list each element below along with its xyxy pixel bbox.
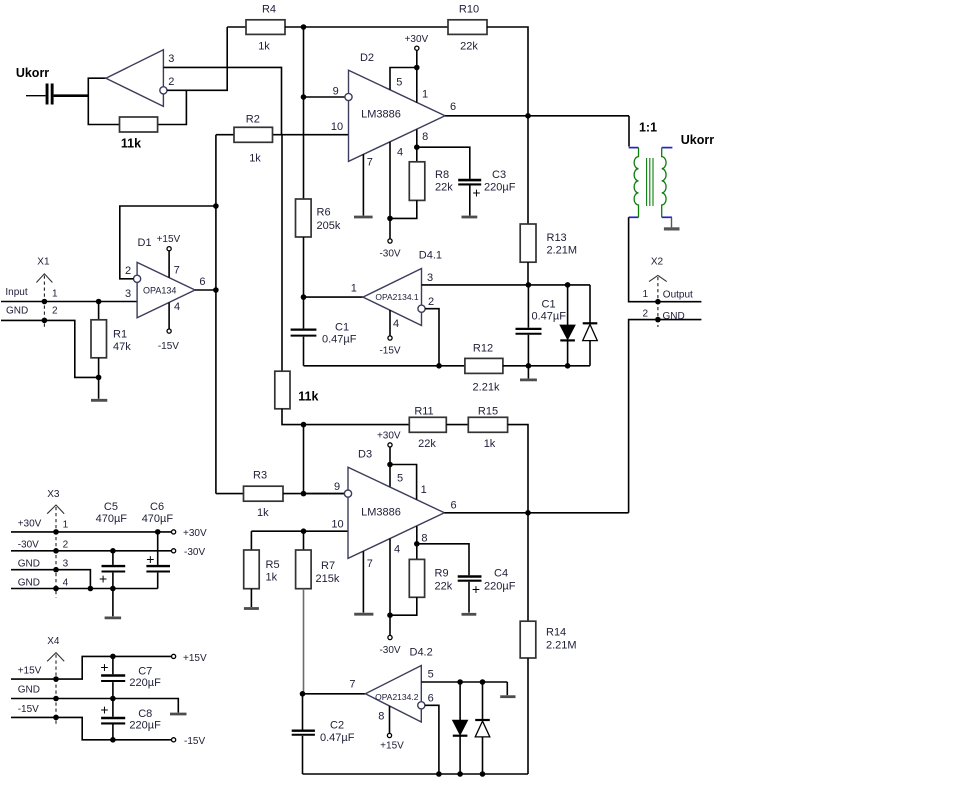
svg-text:4: 4: [63, 578, 69, 589]
resistor R1 47k: [98, 302, 100, 320]
pin 9 bubble: [344, 490, 351, 497]
resistor R12 2.21k: [465, 358, 503, 373]
resistor R5 1k: [250, 531, 252, 550]
wire pin8 to C3: [417, 147, 470, 179]
svg-text:GND: GND: [6, 306, 28, 317]
svg-text:22k: 22k: [435, 182, 453, 194]
svg-text:GND: GND: [18, 578, 40, 589]
terminal -30V (D2): [388, 239, 392, 243]
svg-text:0.47µF: 0.47µF: [320, 732, 355, 744]
connector X3: [18, 489, 69, 598]
svg-text:R10: R10: [459, 4, 479, 16]
svg-text:0.47µF: 0.47µF: [322, 334, 357, 346]
pin 4 stub: [389, 310, 391, 336]
pin 6 bubble: [418, 702, 425, 709]
svg-text:4: 4: [393, 318, 399, 330]
svg-text:1k: 1k: [266, 572, 278, 584]
svg-text:C4: C4: [494, 568, 508, 580]
resistor R6: [296, 199, 312, 237]
svg-text:C3: C3: [492, 169, 506, 181]
resistor R7 215k: [303, 531, 305, 550]
svg-text:6: 6: [451, 500, 457, 512]
svg-text:OPA2134.2: OPA2134.2: [375, 692, 419, 702]
pin 8 stub: [389, 706, 391, 734]
svg-text:R6: R6: [317, 207, 331, 219]
capacitor C8 220uF: [100, 699, 161, 740]
svg-text:+30V: +30V: [405, 34, 429, 45]
capacitor C6 470uF: [142, 501, 174, 588]
svg-text:+30V: +30V: [18, 518, 42, 529]
wire pin8 to C4: [417, 544, 469, 576]
svg-text:D4.1: D4.1: [419, 250, 442, 262]
wire output to transformer: [628, 116, 630, 147]
pin 9 bubble: [345, 93, 352, 100]
wire pin 10 from R2: [273, 134, 349, 136]
wire pin 9: [304, 493, 345, 495]
svg-text:2: 2: [125, 265, 131, 277]
wire output of buffer to feedback: [88, 78, 119, 124]
ground (D3 pin7): [354, 613, 373, 616]
wire C3 to ground: [469, 186, 471, 216]
resistor R10: [448, 20, 487, 35]
pin 3 wire: [422, 284, 591, 286]
pin 2 inverting bubble: [160, 87, 167, 94]
terminal -30V (D3): [388, 635, 392, 639]
svg-text:C1: C1: [335, 321, 349, 333]
svg-text:C7: C7: [138, 665, 152, 677]
wire output node down to R13: [527, 116, 529, 224]
svg-text:8: 8: [421, 533, 427, 545]
terminal +15V (D1): [168, 251, 170, 278]
svg-text:2: 2: [52, 306, 58, 317]
svg-text:220µF: 220µF: [129, 720, 161, 732]
ground (R5): [244, 607, 259, 610]
svg-text:4: 4: [397, 147, 403, 159]
junction R4/R10: [301, 24, 307, 30]
svg-text:1:1: 1:1: [639, 121, 657, 135]
transformer 1:1: [629, 121, 673, 218]
svg-text:-30V: -30V: [18, 540, 39, 551]
svg-text:205k: 205k: [317, 220, 341, 232]
wire output pin 6: [444, 512, 628, 514]
svg-text:0.47µF: 0.47µF: [532, 311, 567, 323]
svg-text:470µF: 470µF: [96, 513, 128, 525]
wire X1 pin2 gnd: [1, 320, 99, 377]
ground (X3): [112, 589, 114, 617]
svg-text:X4: X4: [47, 636, 60, 647]
resistor 11k (buffer feedback): [120, 117, 158, 132]
svg-text:D3: D3: [358, 449, 372, 461]
svg-text:6: 6: [199, 276, 205, 288]
ground (X4): [170, 713, 187, 716]
wire X3 pin2 -30V: [11, 550, 172, 552]
svg-text:220µF: 220µF: [484, 581, 516, 593]
resistor R8: [409, 162, 425, 201]
svg-text:-15V: -15V: [379, 345, 400, 356]
svg-text:-30V: -30V: [379, 248, 400, 259]
terminal -15V (D4.1): [388, 336, 392, 340]
svg-text:11k: 11k: [298, 390, 318, 404]
svg-text:7: 7: [367, 558, 373, 570]
svg-text:X1: X1: [37, 257, 50, 268]
svg-text:R14: R14: [546, 627, 566, 639]
capacitor (Ukorr coupling): [26, 84, 88, 105]
svg-text:C2: C2: [330, 719, 344, 731]
svg-text:1: 1: [351, 283, 357, 295]
ground (R12 node): [527, 366, 529, 379]
wire R4 left: [227, 26, 246, 28]
svg-text:-15V: -15V: [184, 736, 205, 747]
wire R13 bottom: [527, 262, 529, 285]
svg-text:R8: R8: [435, 169, 449, 181]
terminal +15V (X4): [172, 654, 176, 658]
resistor 11k (D3 feedback tap): [281, 135, 283, 372]
svg-text:22k: 22k: [435, 580, 453, 592]
capacitor C3 220uF: [458, 169, 515, 201]
ground (C4): [462, 613, 477, 616]
wire servo bottom line: [304, 365, 465, 367]
pin 8 stub: [416, 526, 418, 559]
op-amp D4.1 OPA2134.1: [363, 269, 422, 326]
pin 8 stub: [416, 129, 418, 161]
svg-text:1k: 1k: [257, 507, 269, 519]
svg-text:C8: C8: [138, 708, 152, 720]
svg-text:R9: R9: [435, 568, 449, 580]
svg-text:9: 9: [334, 481, 340, 493]
svg-text:-30V: -30V: [184, 547, 205, 558]
svg-text:3: 3: [125, 288, 131, 300]
terminal -15V (X4): [172, 738, 176, 742]
svg-text:OPA2134.1: OPA2134.1: [375, 292, 419, 302]
wire X4 pin3 -15V: [11, 717, 172, 739]
capacitor C1 0.47uF (servo input): [291, 297, 357, 366]
svg-text:GND: GND: [663, 311, 685, 322]
wire R10 right down to output node: [487, 27, 528, 116]
connector X4: [18, 636, 64, 725]
ground (R1): [91, 399, 107, 402]
svg-text:47k: 47k: [113, 341, 131, 353]
svg-text:8: 8: [422, 131, 428, 143]
resistor R13: [520, 224, 536, 262]
svg-text:1: 1: [52, 288, 58, 299]
svg-text:+: +: [472, 185, 480, 201]
wire X1 pin1 to D1 pin3: [1, 301, 137, 303]
svg-text:+: +: [146, 551, 154, 567]
svg-text:-15V: -15V: [18, 704, 39, 715]
svg-text:2: 2: [643, 308, 649, 319]
wire X3 pin3 GND jog: [11, 570, 90, 589]
wire X2 pin2 down to D3 output: [629, 320, 702, 513]
terminal -30V (X3): [172, 549, 176, 553]
svg-text:LM3886: LM3886: [361, 109, 401, 121]
pin2 bubble D1: [134, 275, 141, 282]
svg-text:R3: R3: [253, 469, 267, 481]
wire pin 2 to R12: [425, 309, 439, 366]
svg-text:470µF: 470µF: [142, 513, 174, 525]
wire feedback drop: [158, 90, 187, 124]
svg-text:R12: R12: [473, 342, 493, 354]
wire R4/R10 tap down to pin9 node: [303, 27, 305, 199]
wire bottom rail: [303, 773, 529, 775]
wire output pin 6: [445, 115, 629, 117]
svg-text:+: +: [100, 659, 108, 675]
pin 5 stub: [390, 68, 417, 90]
svg-text:3: 3: [427, 272, 433, 284]
svg-text:2.21M: 2.21M: [546, 640, 577, 652]
capacitor C4 220uF: [458, 568, 516, 598]
connector X2: [643, 257, 694, 327]
svg-text:3: 3: [63, 559, 69, 570]
svg-text:1: 1: [63, 519, 69, 530]
pin 1 stub: [390, 465, 417, 500]
resistor R3 1k: [216, 493, 244, 495]
svg-text:R7: R7: [321, 560, 335, 572]
svg-text:4: 4: [394, 544, 400, 556]
terminal +30V (X3): [172, 530, 176, 534]
terminal -15V (D1): [168, 303, 170, 329]
wire R6 bottom to servo node: [303, 237, 305, 297]
svg-text:11k: 11k: [121, 137, 141, 151]
svg-text:2.21M: 2.21M: [547, 245, 578, 257]
terminal +30V (D3): [388, 443, 392, 447]
pin 5 stub: [389, 465, 391, 487]
resistor R14 2.21M: [527, 513, 529, 621]
svg-text:2: 2: [63, 540, 69, 551]
wire X3 pin1 +30V: [11, 531, 172, 533]
svg-text:1k: 1k: [249, 153, 261, 165]
svg-text:+15V: +15V: [18, 665, 42, 676]
svg-text:2: 2: [428, 296, 434, 308]
pin 2 bubble: [418, 305, 425, 312]
svg-text:D1: D1: [138, 237, 152, 249]
svg-text:5: 5: [396, 76, 402, 88]
svg-text:Ukorr: Ukorr: [16, 66, 49, 80]
svg-text:R2: R2: [246, 113, 260, 125]
wire D1 feedback: [120, 206, 216, 279]
svg-text:Output: Output: [663, 289, 693, 300]
svg-text:10: 10: [331, 121, 343, 133]
svg-text:C5: C5: [104, 501, 118, 513]
svg-text:8: 8: [378, 711, 384, 723]
ground (transformer): [664, 217, 680, 229]
capacitor C1 0.47uF (output RC): [516, 285, 567, 366]
wire X4 pin1 +15V: [11, 656, 172, 679]
wire X4 pin2 GND: [11, 699, 178, 713]
svg-text:+30V: +30V: [377, 431, 401, 442]
svg-text:R4: R4: [262, 4, 276, 16]
wire transformer to X2 pin1: [629, 217, 702, 301]
svg-text:GND: GND: [18, 684, 40, 695]
svg-text:220µF: 220µF: [129, 677, 161, 689]
ground (D4.2 pin5): [506, 682, 508, 695]
svg-text:+: +: [472, 581, 480, 597]
svg-text:+30V: +30V: [183, 528, 207, 539]
resistor R2: [216, 134, 234, 136]
wire main left bus (D1 out to R2/R3): [215, 135, 217, 494]
svg-text:D4.2: D4.2: [410, 646, 433, 658]
svg-text:2.21k: 2.21k: [473, 381, 500, 393]
wire X3 pin4 GND line: [11, 588, 158, 590]
wire R15 right down to D3 output: [508, 425, 528, 513]
pin 1 stub: [416, 68, 418, 103]
diode V2 (clamp, outline): [583, 285, 598, 366]
svg-text:R1: R1: [113, 329, 127, 341]
svg-text:LM3886: LM3886: [361, 507, 401, 519]
op-amp D2 LM3886: [349, 70, 446, 161]
svg-text:-30V: -30V: [379, 645, 400, 656]
svg-text:1: 1: [422, 89, 428, 101]
svg-text:10: 10: [331, 519, 343, 531]
svg-text:1: 1: [421, 484, 427, 496]
wire R8 bottom to -30V line: [390, 200, 417, 218]
svg-text:7: 7: [367, 157, 373, 169]
diode V3 (clamp, filled): [453, 682, 468, 774]
terminal +15V (D4.2): [387, 733, 391, 737]
pin 7 stub: [362, 154, 364, 215]
wire D1 output: [195, 289, 216, 291]
ground (D2 pin7): [354, 216, 373, 219]
svg-text:-15V: -15V: [158, 341, 179, 352]
wire D4.1 output line: [304, 296, 364, 298]
svg-text:220µF: 220µF: [484, 182, 516, 194]
resistor R11 22k: [409, 417, 446, 432]
capacitor C7 220uF: [100, 656, 161, 698]
svg-text:6: 6: [450, 101, 456, 113]
wire pin 9: [304, 96, 345, 98]
svg-text:R13: R13: [547, 232, 567, 244]
svg-text:+15V: +15V: [183, 653, 207, 664]
op-amp D3 LM3886: [348, 467, 444, 558]
svg-text:6: 6: [428, 692, 434, 704]
svg-text:7: 7: [349, 679, 355, 691]
svg-text:R5: R5: [266, 559, 280, 571]
svg-text:R11: R11: [414, 406, 433, 418]
diode V4 (clamp, outline): [475, 682, 490, 774]
wire pin2 to R4 column: [167, 27, 227, 90]
diode V1 (clamp, filled): [560, 285, 575, 366]
terminal +30V (D2): [416, 50, 418, 67]
pin 4 stub: [389, 539, 391, 636]
svg-text:C1: C1: [542, 299, 556, 311]
pin 4 stub: [389, 142, 391, 239]
pin 7 stub: [362, 551, 364, 612]
svg-text:5: 5: [428, 669, 434, 681]
capacitor C5 470uF: [96, 501, 128, 588]
svg-text:X2: X2: [651, 257, 664, 268]
svg-text:R15: R15: [478, 406, 498, 418]
svg-text:22k: 22k: [418, 438, 436, 450]
wire pin3 to R2 column: [163, 67, 281, 134]
wire R4 to R10: [285, 26, 448, 28]
wire down to D3 pin9 node: [303, 425, 305, 494]
svg-text:3: 3: [168, 53, 174, 65]
svg-text:215k: 215k: [316, 573, 340, 585]
svg-text:1: 1: [643, 289, 649, 300]
svg-text:+: +: [99, 570, 107, 586]
op-amp buffer (left-pointing): [106, 50, 163, 107]
wire pin 10 line: [251, 530, 348, 532]
svg-text:22k: 22k: [460, 41, 478, 53]
svg-text:4: 4: [174, 301, 180, 313]
svg-text:5: 5: [397, 473, 403, 485]
svg-text:GND: GND: [18, 559, 40, 570]
svg-text:C6: C6: [150, 501, 164, 513]
wire pin 6 down to rail: [425, 705, 439, 774]
svg-text:OPA134: OPA134: [143, 285, 176, 295]
svg-text:7: 7: [174, 264, 180, 276]
svg-text:X3: X3: [47, 489, 60, 500]
svg-text:Input: Input: [5, 287, 27, 298]
pin 5 wire: [421, 681, 507, 683]
svg-text:Ukorr: Ukorr: [681, 133, 714, 147]
resistor R4: [246, 20, 285, 35]
connector X1: [5, 257, 58, 328]
capacitor C2 0.47uF: [292, 694, 355, 774]
op-amp D1 OPA134: [137, 262, 195, 317]
svg-text:+: +: [100, 701, 108, 717]
wire R7 down to servo D4.2: [303, 589, 305, 694]
svg-text:+15V: +15V: [157, 234, 181, 245]
svg-text:+15V: +15V: [380, 741, 404, 752]
svg-text:2: 2: [168, 76, 174, 88]
svg-text:9: 9: [333, 86, 339, 98]
svg-text:1k: 1k: [484, 438, 496, 450]
resistor R9 22k: [409, 559, 424, 597]
svg-text:D2: D2: [360, 52, 374, 64]
ground (C3): [462, 216, 478, 219]
svg-text:1k: 1k: [258, 41, 270, 53]
op-amp D4.2 OPA2134.2: [303, 693, 366, 695]
wire R3 to D3 pin9: [283, 493, 344, 495]
resistor R15 1k: [468, 417, 507, 432]
